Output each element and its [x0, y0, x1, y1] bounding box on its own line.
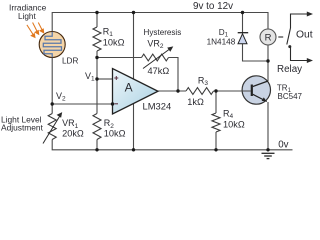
svg-text:R1: R1 — [103, 26, 114, 38]
svg-text:R: R — [265, 33, 272, 44]
svg-text:20kΩ: 20kΩ — [62, 129, 84, 139]
svg-text:Light: Light — [18, 12, 36, 21]
svg-text:1kΩ: 1kΩ — [187, 97, 204, 107]
svg-text:47kΩ: 47kΩ — [148, 66, 170, 76]
svg-text:10kΩ: 10kΩ — [223, 120, 245, 130]
svg-text:Irradiance: Irradiance — [9, 2, 47, 12]
svg-text:BC547: BC547 — [278, 92, 303, 101]
svg-text:Out: Out — [296, 30, 313, 41]
svg-text:LDR: LDR — [62, 57, 78, 66]
svg-text:Relay: Relay — [277, 64, 302, 75]
svg-text:Hysteresis: Hysteresis — [144, 28, 182, 37]
svg-text:V1: V1 — [85, 71, 95, 83]
svg-text:10kΩ: 10kΩ — [103, 37, 125, 47]
svg-text:VR2: VR2 — [147, 39, 164, 51]
svg-text:R4: R4 — [223, 109, 234, 121]
svg-text:Adjustment: Adjustment — [1, 123, 44, 133]
svg-text:9v to 12v: 9v to 12v — [193, 1, 233, 12]
svg-text:1N4148: 1N4148 — [207, 38, 236, 47]
svg-text:A: A — [125, 81, 133, 95]
svg-text:R3: R3 — [198, 75, 209, 87]
svg-text:V2: V2 — [56, 91, 66, 103]
svg-text:LM324: LM324 — [143, 101, 172, 112]
svg-text:D1: D1 — [219, 28, 229, 39]
svg-text:10kΩ: 10kΩ — [104, 129, 126, 139]
svg-text:0v: 0v — [278, 139, 288, 150]
